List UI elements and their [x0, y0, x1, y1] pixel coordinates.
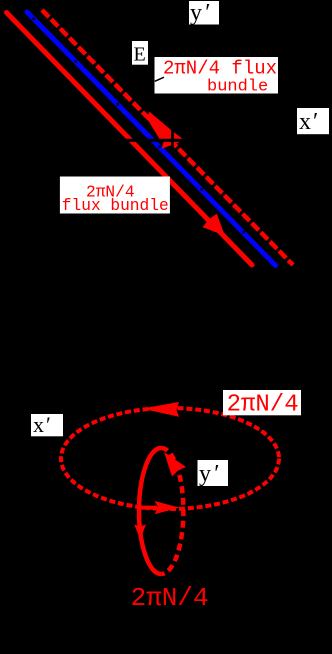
svg-text:y′: y′ — [190, 0, 210, 26]
svg-text:x′: x′ — [33, 412, 51, 437]
svg-text:2πN/4: 2πN/4 — [227, 392, 299, 419]
arrowhead on small ellipse upper right (pointing up) — [164, 452, 186, 477]
svg-text:bundle: bundle — [207, 78, 268, 97]
big dashed ellipse (x' cycle) — [61, 408, 279, 509]
label E — [132, 41, 148, 65]
wire: dashed red flux line — [42, 10, 293, 265]
small ellipse right half (dashed) — [161, 448, 183, 574]
y' axis (black, visible only crossing colored lines) — [171, 97, 174, 152]
small ellipse left half (solid) — [139, 448, 161, 574]
svg-text:E: E — [134, 44, 146, 66]
wire: blue flux line — [27, 12, 276, 266]
label y' (bottom diagram) — [198, 460, 229, 486]
svg-text:flux bundle: flux bundle — [62, 197, 169, 215]
arrowhead on big ellipse (pointing left) — [142, 402, 179, 417]
horizontal flux arrow through small ellipse — [140, 506, 158, 510]
label: 2piN/4 flux bundle (upper) — [155, 57, 279, 94]
svg-text:x′: x′ — [299, 109, 318, 135]
arrowhead on small ellipse left (pointing down) — [134, 525, 146, 540]
x-direction arrowhead at E — [162, 125, 185, 149]
label: 2piN/4 flux bundle (lower) — [60, 177, 170, 214]
flux bundle arrow at E (thick head mass) — [146, 112, 172, 141]
arrowhead on solid red line — [203, 214, 225, 236]
svg-text:y′: y′ — [199, 461, 219, 487]
svg-text:2πN/4: 2πN/4 — [131, 583, 209, 613]
wire: solid red flux line — [7, 13, 253, 266]
svg-text:2πN/4 flux: 2πN/4 flux — [163, 58, 277, 80]
label 2piN/4 (top right, white box) — [223, 390, 301, 415]
label x' (bottom diagram) — [31, 414, 63, 436]
node dots on blue line — [32, 18, 245, 234]
label y' (top) — [189, 1, 219, 25]
label x' (top diagram) — [297, 108, 329, 134]
x' axis (black, visible only crossing colored lines) — [108, 139, 296, 142]
leader line — [155, 77, 164, 81]
